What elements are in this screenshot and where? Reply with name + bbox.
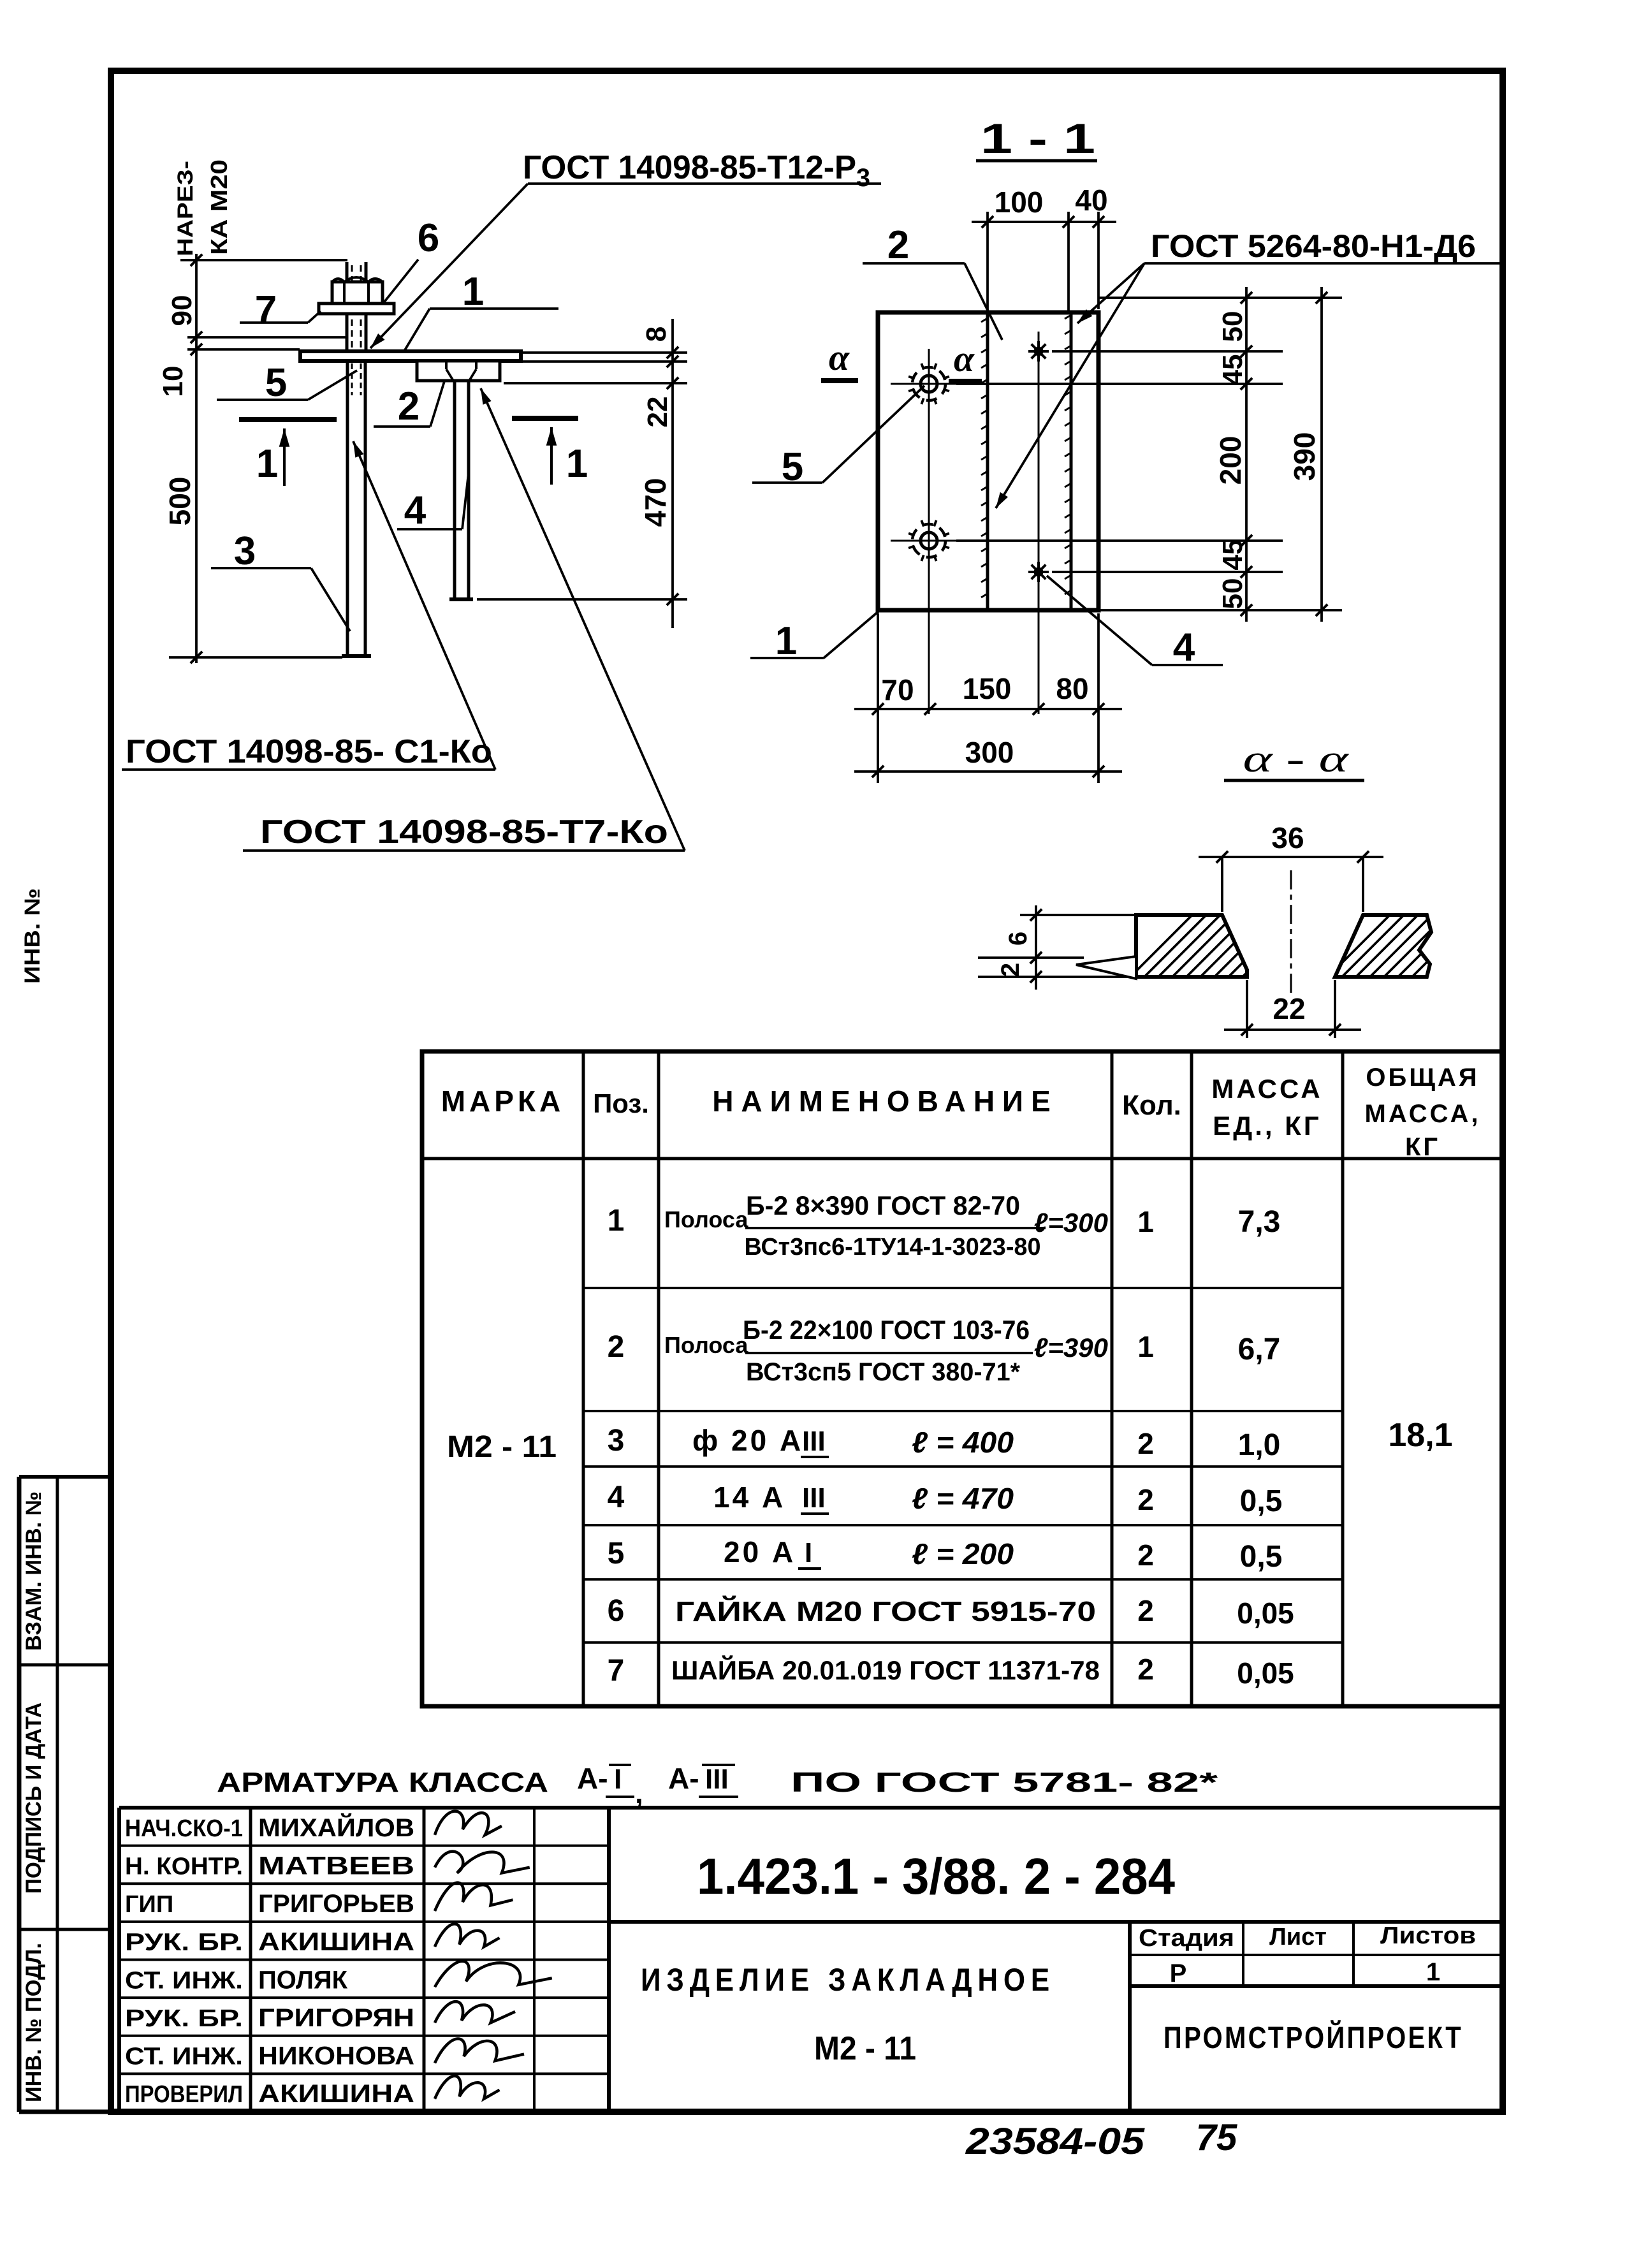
plate 1 edge view (8x390 strip) xyxy=(300,351,521,361)
svg-text:1: 1 xyxy=(256,442,278,486)
svg-text:1: 1 xyxy=(775,619,797,663)
svg-text:22: 22 xyxy=(642,397,673,428)
svg-text:6: 6 xyxy=(418,216,439,260)
washer (pos 7) xyxy=(319,304,394,314)
svg-text:ℓ = 400: ℓ = 400 xyxy=(912,1426,1014,1459)
svg-text:6,7: 6,7 xyxy=(1238,1333,1281,1366)
svg-text:6: 6 xyxy=(608,1594,625,1628)
svg-text:2: 2 xyxy=(1137,1653,1154,1686)
right dimension chain of left view xyxy=(671,319,674,628)
svg-text:Полоса: Полоса xyxy=(664,1206,748,1233)
rod below washer (threaded, dashed) xyxy=(346,314,349,351)
right dimension extension lines xyxy=(1098,296,1342,299)
dimension line 300 xyxy=(854,770,1122,773)
plate 1 face (300x390) xyxy=(878,312,1098,610)
svg-text:90: 90 xyxy=(166,295,198,326)
svg-text:150: 150 xyxy=(963,672,1012,705)
svg-text:ИЗДЕЛИЕ ЗАКЛАДНОЕ: ИЗДЕЛИЕ ЗАКЛАДНОЕ xyxy=(641,1962,1055,1998)
svg-text:I: I xyxy=(614,1764,622,1795)
left view: extension line at plate top xyxy=(187,348,300,351)
rod 4 end symbols (asterisks) xyxy=(1028,350,1049,353)
svg-text:2: 2 xyxy=(1137,1427,1154,1460)
parts table column lines xyxy=(582,1051,585,1706)
svg-text:1: 1 xyxy=(462,270,484,314)
svg-text:ГОСТ 14098-85-Т12-Р3: ГОСТ 14098-85-Т12-Р3 xyxy=(523,149,870,192)
svg-text:НИКОНОВА: НИКОНОВА xyxy=(258,2042,414,2070)
svg-text:2: 2 xyxy=(996,963,1025,977)
svg-text:НАРЕЗ-: НАРЕЗ- xyxy=(173,161,198,256)
svg-text:390: 390 xyxy=(1288,432,1321,481)
sidebar boxes xyxy=(17,1477,22,2112)
centerline of hole xyxy=(1290,870,1292,993)
rod 4 (right anchor) xyxy=(453,381,456,598)
svg-text:80: 80 xyxy=(1056,672,1088,705)
svg-text:100: 100 xyxy=(995,186,1044,219)
svg-text:50: 50 xyxy=(1217,311,1248,342)
extension lines to right chain xyxy=(523,351,687,354)
svg-text:ℓ=300: ℓ=300 xyxy=(1034,1208,1108,1238)
svg-text:ГАЙКА М20 ГОСТ 5915-70: ГАЙКА М20 ГОСТ 5915-70 xyxy=(675,1595,1096,1627)
svg-text:2: 2 xyxy=(398,384,419,428)
svg-text:50: 50 xyxy=(1217,578,1248,610)
document number box xyxy=(609,1920,1503,1924)
svg-text:4: 4 xyxy=(404,488,427,532)
nut M20 (pos 6) xyxy=(332,282,383,305)
svg-text:1 - 1: 1 - 1 xyxy=(981,115,1095,162)
svg-text:ПОДПИСЬ И ДАТА: ПОДПИСЬ И ДАТА xyxy=(22,1702,46,1894)
svg-text:7: 7 xyxy=(608,1654,625,1688)
rod 4 centerline xyxy=(1038,332,1040,714)
parts table header bottom line xyxy=(422,1157,1503,1160)
svg-text:1: 1 xyxy=(1137,1330,1154,1363)
svg-text:1: 1 xyxy=(566,442,588,486)
svg-text:III: III xyxy=(705,1764,729,1795)
svg-text:ВСт3сп5 ГОСТ 380-71*: ВСт3сп5 ГОСТ 380-71* xyxy=(746,1358,1020,1386)
svg-text:45: 45 xyxy=(1217,539,1248,571)
bottom extension line of 500 dim xyxy=(169,656,342,659)
top dimension line xyxy=(972,221,1116,223)
svg-text:Н. КОНТР.: Н. КОНТР. xyxy=(125,1853,243,1880)
right dimension line 45/50/200 xyxy=(1245,287,1248,622)
svg-text:200: 200 xyxy=(1214,436,1247,485)
svg-text:ИНВ. №: ИНВ. № xyxy=(20,888,45,984)
svg-text:500: 500 xyxy=(163,477,196,526)
svg-text:36: 36 xyxy=(1271,821,1304,854)
svg-text:3: 3 xyxy=(608,1424,625,1458)
svg-text:2: 2 xyxy=(1137,1539,1154,1572)
svg-text:КГ: КГ xyxy=(1405,1133,1440,1161)
svg-text:4: 4 xyxy=(1173,626,1195,669)
svg-text:5: 5 xyxy=(608,1537,625,1570)
svg-text:5: 5 xyxy=(265,361,287,405)
svg-text:α: α xyxy=(829,337,850,378)
dim 36 extension+line xyxy=(1221,857,1223,912)
svg-text:ШАЙБА 20.01.019 ГОСТ 11371-78: ШАЙБА 20.01.019 ГОСТ 11371-78 xyxy=(671,1655,1100,1685)
parts table outer border xyxy=(422,1051,1503,1706)
svg-text:ГОСТ 5264-80-Н1-Д6: ГОСТ 5264-80-Н1-Д6 xyxy=(1151,228,1476,264)
svg-text:Поз.: Поз. xyxy=(593,1088,649,1118)
svg-text:М2 - 11: М2 - 11 xyxy=(814,2030,916,2067)
svg-text:45: 45 xyxy=(1217,355,1248,386)
svg-text:Кол.: Кол. xyxy=(1122,1090,1181,1121)
svg-text:23584-05: 23584-05 xyxy=(965,2121,1145,2162)
svg-text:,: , xyxy=(635,1776,643,1810)
svg-text:Р: Р xyxy=(1170,1959,1187,1987)
svg-text:МАССА: МАССА xyxy=(1211,1074,1322,1104)
hole symbols for rod 3 (threaded holes) xyxy=(891,383,968,385)
svg-text:1: 1 xyxy=(608,1204,625,1238)
signature table row lines xyxy=(119,1845,609,1847)
svg-text:Стадия: Стадия xyxy=(1139,1925,1234,1952)
svg-text:ГРИГОРЯН: ГРИГОРЯН xyxy=(258,2004,414,2032)
svg-text:I: I xyxy=(805,1537,812,1569)
svg-text:ГРИГОРЬЕВ: ГРИГОРЬЕВ xyxy=(258,1890,414,1918)
svg-text:НАИМЕНОВАНИЕ: НАИМЕНОВАНИЕ xyxy=(712,1085,1058,1118)
svg-text:0,5: 0,5 xyxy=(1240,1484,1283,1518)
weld bead beak on section left block xyxy=(1076,956,1136,979)
svg-text:4: 4 xyxy=(608,1481,625,1514)
hole centerline down to bottom dims xyxy=(928,349,930,714)
left view: dimension ticks xyxy=(191,254,202,266)
svg-text:МАРКА: МАРКА xyxy=(441,1085,565,1118)
svg-text:М2 - 11: М2 - 11 xyxy=(447,1430,557,1464)
rod 4 bottom end cap xyxy=(449,597,473,601)
svg-text:СТ. ИНЖ.: СТ. ИНЖ. xyxy=(125,1967,243,1994)
svg-text:ПОЛЯК: ПОЛЯК xyxy=(258,1966,348,1994)
svg-text:ℓ=390: ℓ=390 xyxy=(1034,1333,1108,1363)
svg-text:А-: А- xyxy=(577,1762,608,1795)
svg-text:14 А: 14 А xyxy=(713,1481,785,1514)
svg-text:7,3: 7,3 xyxy=(1238,1205,1281,1239)
title cell divider xyxy=(1128,1922,1132,2112)
svg-text:МИХАЙЛОВ: МИХАЙЛОВ xyxy=(258,1813,414,1842)
svg-text:40: 40 xyxy=(1075,184,1107,217)
plate 2 cross-section left block (hatched) xyxy=(1136,915,1247,977)
rod 3/5 threaded top above plate xyxy=(346,262,349,351)
svg-text:α - α: α - α xyxy=(1243,738,1350,780)
svg-text:СТ. ИНЖ.: СТ. ИНЖ. xyxy=(125,2044,243,2070)
svg-text:Б-2 22×100 ГОСТ 103-76: Б-2 22×100 ГОСТ 103-76 xyxy=(743,1315,1030,1345)
svg-text:7: 7 xyxy=(255,288,277,332)
bottom dimension line 70/150/80 xyxy=(854,708,1122,710)
svg-text:АКИШИНА: АКИШИНА xyxy=(258,2080,414,2108)
svg-text:0,05: 0,05 xyxy=(1237,1657,1294,1690)
svg-text:МАТВЕЕВ: МАТВЕЕВ xyxy=(258,1852,414,1880)
svg-text:АКИШИНА: АКИШИНА xyxy=(258,1928,414,1956)
section mark 1-1 left arrow xyxy=(239,417,337,422)
svg-text:ИНВ. № ПОДЛ.: ИНВ. № ПОДЛ. xyxy=(22,1943,46,2102)
svg-text:ПО ГОСТ 5781- 82*: ПО ГОСТ 5781- 82* xyxy=(791,1767,1218,1798)
svg-text:ВСт3пс6-1ТУ14-1-3023-80: ВСт3пс6-1ТУ14-1-3023-80 xyxy=(745,1234,1041,1261)
svg-text:α: α xyxy=(954,338,975,379)
svg-text:0,5: 0,5 xyxy=(1240,1540,1283,1574)
svg-text:2: 2 xyxy=(1137,1594,1154,1627)
svg-text:0,05: 0,05 xyxy=(1237,1597,1294,1630)
svg-text:РУК. БР.: РУК. БР. xyxy=(125,2005,243,2032)
svg-text:ВЗАМ. ИНВ. №: ВЗАМ. ИНВ. № xyxy=(22,1491,46,1651)
weld seam line left (pos 2 plate edge) xyxy=(986,312,989,610)
svg-text:НАЧ.СКО-1: НАЧ.СКО-1 xyxy=(125,1815,243,1842)
left small dims 6 and 2 xyxy=(1020,914,1136,916)
svg-text:Полоса: Полоса xyxy=(664,1332,748,1358)
svg-text:2: 2 xyxy=(608,1330,625,1364)
svg-text:МАССА,: МАССА, xyxy=(1365,1100,1481,1128)
title block top border xyxy=(119,1806,1503,1810)
dim 22 under section xyxy=(1246,980,1248,1038)
dim line 390 xyxy=(1320,287,1323,622)
svg-text:ПРОМСТРОЙПРОЕКТ: ПРОМСТРОЙПРОЕКТ xyxy=(1163,2020,1463,2055)
weld seam line right xyxy=(1070,312,1073,610)
svg-text:ℓ = 470: ℓ = 470 xyxy=(912,1482,1014,1515)
svg-text:III: III xyxy=(802,1426,826,1457)
svg-text:22: 22 xyxy=(1273,992,1305,1025)
svg-text:1,0: 1,0 xyxy=(1238,1428,1281,1462)
svg-text:Листов: Листов xyxy=(1380,1922,1476,1949)
svg-text:3: 3 xyxy=(234,529,256,573)
svg-text:ГОСТ 14098-85- С1-Ко: ГОСТ 14098-85- С1-Ко xyxy=(126,733,492,770)
svg-text:ГИП: ГИП xyxy=(125,1891,173,1918)
svg-text:300: 300 xyxy=(965,736,1014,769)
weld seam sawtooth ticks xyxy=(981,318,988,322)
svg-text:2: 2 xyxy=(887,223,909,267)
svg-text:Б-2 8×390 ГОСТ 82-70: Б-2 8×390 ГОСТ 82-70 xyxy=(746,1190,1020,1220)
bottom dimension extension lines xyxy=(877,613,879,783)
section mark 1-1 right arrow xyxy=(512,416,578,421)
svg-text:А-: А- xyxy=(668,1762,699,1795)
svg-text:ОБЩАЯ: ОБЩАЯ xyxy=(1366,1064,1479,1092)
svg-text:18,1: 18,1 xyxy=(1388,1417,1452,1454)
svg-text:АРМАТУРА КЛАССА: АРМАТУРА КЛАССА xyxy=(217,1767,548,1798)
svg-text:75: 75 xyxy=(1196,2117,1237,2158)
svg-text:470: 470 xyxy=(639,478,672,527)
top dim 100/40 extension lines xyxy=(986,212,989,312)
svg-text:ф 20 А: ф 20 А xyxy=(692,1424,803,1457)
svg-text:КА М20: КА М20 xyxy=(206,159,232,255)
svg-text:20 А: 20 А xyxy=(724,1535,796,1569)
svg-text:III: III xyxy=(802,1482,826,1514)
signature table verticals xyxy=(117,1808,121,2112)
svg-text:Лист: Лист xyxy=(1269,1924,1327,1950)
rod 5/3 below plate (anchor) xyxy=(346,361,349,655)
svg-text:6: 6 xyxy=(1004,932,1032,946)
plate 2 cross-section right block (hatched, broken end) xyxy=(1335,915,1431,977)
svg-text:РУК. БР.: РУК. БР. xyxy=(125,1929,243,1956)
sheet border frame xyxy=(111,71,1503,2112)
svg-text:70: 70 xyxy=(881,673,914,706)
svg-text:ГОСТ 14098-85-Т7-Ко: ГОСТ 14098-85-Т7-Ко xyxy=(260,814,668,851)
left view: top extension line (thread level) xyxy=(180,259,347,261)
svg-text:ЕД., КГ: ЕД., КГ xyxy=(1213,1111,1321,1141)
stage/sheet header cells xyxy=(1130,1954,1503,1956)
left view: dimension chain vertical line xyxy=(195,254,198,663)
svg-text:1.423.1 - 3/88. 2 - 284: 1.423.1 - 3/88. 2 - 284 xyxy=(697,1848,1175,1905)
svg-text:8: 8 xyxy=(641,326,672,342)
left view: extension line at washer plane xyxy=(187,336,346,339)
parts table row lines xyxy=(583,1287,1192,1289)
washer plate 2 (22x100) under plate 1 xyxy=(417,361,500,381)
svg-text:2: 2 xyxy=(1137,1483,1154,1516)
svg-text:ℓ = 200: ℓ = 200 xyxy=(912,1537,1014,1570)
svg-text:1: 1 xyxy=(1137,1205,1154,1238)
svg-text:1: 1 xyxy=(1426,1958,1440,1986)
svg-text:10: 10 xyxy=(157,366,189,397)
rod 3 bottom end cap xyxy=(342,654,371,658)
svg-text:ПРОВЕРИЛ: ПРОВЕРИЛ xyxy=(125,2081,243,2108)
